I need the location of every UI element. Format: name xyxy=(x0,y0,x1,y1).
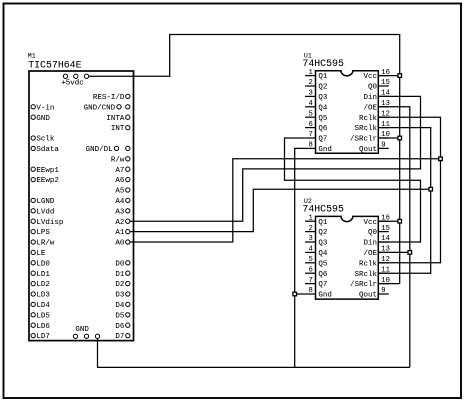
U2 part value 74HC595 xyxy=(302,204,344,215)
svg-text:LD7: LD7 xyxy=(36,333,50,341)
svg-text:/OE: /OE xyxy=(363,104,377,112)
svg-text:INT: INT xyxy=(111,125,125,133)
svg-text:Rclk: Rclk xyxy=(359,115,378,123)
U1 pin 16 Vcc xyxy=(363,69,389,81)
M1 pin INT xyxy=(111,125,130,133)
M1 GND pins xyxy=(73,326,99,338)
svg-text:D5: D5 xyxy=(115,312,125,320)
svg-text:INTA: INTA xyxy=(106,115,125,123)
wire +5vdc net: M1 top pin to U1/U2 Vcc and /SRclr rail xyxy=(89,35,400,284)
U1 part value 74HC595 xyxy=(302,58,344,69)
svg-text:LR/w: LR/w xyxy=(36,240,55,248)
M1 pin A5 xyxy=(115,188,130,196)
U2 pin 1 Q1 xyxy=(305,214,328,226)
svg-text:D0: D0 xyxy=(115,260,125,268)
svg-text:7: 7 xyxy=(308,131,312,139)
svg-text:74HC595: 74HC595 xyxy=(302,204,344,215)
M1 pin LD5 xyxy=(31,312,50,320)
U2 pin 3 Q3 xyxy=(305,235,328,247)
M1 pin LD0 xyxy=(31,260,50,268)
M1 part value TIC57H64E xyxy=(28,60,81,71)
svg-text:TIC57H64E: TIC57H64E xyxy=(28,60,81,71)
svg-text:LD6: LD6 xyxy=(36,323,50,331)
svg-text:R/w: R/w xyxy=(111,156,125,164)
svg-text:M1: M1 xyxy=(28,53,36,60)
M1 pin LD2 xyxy=(31,281,50,289)
U1 pin 15 Q0 xyxy=(368,79,390,91)
svg-text:3: 3 xyxy=(308,235,312,243)
U1 reference designator xyxy=(304,52,312,59)
wire A2 net: M1.A2 to U1.Din (pin14) xyxy=(130,96,421,221)
U2 pin 4 Q4 xyxy=(305,246,328,258)
svg-text:1: 1 xyxy=(308,69,312,77)
svg-text:A0: A0 xyxy=(115,240,125,248)
svg-text:4: 4 xyxy=(308,100,312,108)
svg-text:D1: D1 xyxy=(115,271,125,279)
M1 pin D5 xyxy=(115,312,130,320)
U1 pin 4 Q4 xyxy=(305,100,328,112)
svg-text:Q2: Q2 xyxy=(318,84,327,92)
M1 pin LD7 xyxy=(31,333,50,341)
svg-text:+5vdc: +5vdc xyxy=(61,80,84,88)
M1 pin A6 xyxy=(115,177,130,185)
svg-text:EEwp1: EEwp1 xyxy=(36,167,59,175)
U1 pin 5 Q5 xyxy=(305,110,328,122)
IC U2 74HC595 body xyxy=(316,216,379,299)
U1 pin 9 Qout xyxy=(359,142,389,154)
svg-text:A5: A5 xyxy=(115,188,125,196)
svg-text:8: 8 xyxy=(308,142,312,150)
svg-text:LD2: LD2 xyxy=(36,281,50,289)
svg-text:Q3: Q3 xyxy=(318,94,328,102)
svg-text:Sclk: Sclk xyxy=(36,136,55,144)
M1 pin LE xyxy=(31,250,46,258)
svg-text:Q4: Q4 xyxy=(318,104,328,112)
M1 pin LR/w xyxy=(31,240,55,248)
svg-text:6: 6 xyxy=(308,121,312,129)
wire /OE net: U1.13 and U2.13 to ground rail xyxy=(378,107,410,368)
svg-text:LD3: LD3 xyxy=(36,292,50,300)
svg-text:Q0: Q0 xyxy=(368,229,378,237)
M1 pin A4 xyxy=(115,198,130,206)
M1 pin R/w xyxy=(111,156,130,164)
U1 pin 12 Rclk xyxy=(359,110,390,122)
svg-text:D4: D4 xyxy=(115,302,125,310)
svg-text:Din: Din xyxy=(363,240,377,248)
svg-text:Q1: Q1 xyxy=(318,219,328,227)
svg-text:LE: LE xyxy=(36,250,46,258)
M1 pin EEwp1 xyxy=(31,167,59,175)
M1 pin EEwp2 xyxy=(31,177,59,185)
junction GND at U2 pin8 xyxy=(293,292,297,296)
M1 pin D1 xyxy=(115,271,130,279)
M1 pin RES-I/D xyxy=(93,94,130,102)
junction A0/Rclk xyxy=(439,157,443,161)
M1 pin Sdata xyxy=(31,146,59,154)
svg-text:Q5: Q5 xyxy=(318,115,328,123)
svg-text:/OE: /OE xyxy=(363,250,377,258)
M1 pin A0 xyxy=(115,240,130,248)
U2 pin 8 Gnd xyxy=(305,287,332,299)
svg-text:/SRclr: /SRclr xyxy=(350,136,377,144)
U2 pin 16 Vcc xyxy=(363,214,389,226)
U1 pin 7 Q7 xyxy=(305,131,327,143)
U2 pin 10 /SRclr xyxy=(350,277,390,289)
U1 pin 6 Q6 xyxy=(305,121,328,133)
M1 pin GND/DL xyxy=(86,146,130,154)
svg-text:15: 15 xyxy=(381,79,390,87)
svg-text:Q6: Q6 xyxy=(318,125,328,133)
M1 pin D3 xyxy=(115,292,130,300)
svg-text:SRclk: SRclk xyxy=(354,125,377,133)
IC U1 74HC595 body xyxy=(316,71,379,154)
svg-text:1: 1 xyxy=(308,214,312,222)
svg-text:D3: D3 xyxy=(115,292,125,300)
junction +5V at U2 pin16 xyxy=(398,219,402,223)
U1 pin 2 Q2 xyxy=(305,79,327,91)
U2 pin 7 Q7 xyxy=(305,277,327,289)
M1 pin A1 xyxy=(115,229,130,237)
U2 pin 11 SRclk xyxy=(354,266,389,278)
svg-text:LGND: LGND xyxy=(36,198,55,206)
M1 pin LVdd xyxy=(31,208,54,216)
M1 pin V-in xyxy=(31,104,54,112)
svg-text:A2: A2 xyxy=(115,219,124,227)
svg-text:Qout: Qout xyxy=(359,292,377,300)
svg-text:A6: A6 xyxy=(115,177,125,185)
svg-text:SRclk: SRclk xyxy=(354,271,377,279)
U2 pin 13 /OE xyxy=(363,246,389,258)
svg-text:5: 5 xyxy=(308,110,312,118)
M1 pin LD6 xyxy=(31,323,50,331)
U1 pin 11 SRclk xyxy=(354,121,389,133)
U2 pin 12 Rclk xyxy=(359,256,390,268)
M1 +5vdc supply pins xyxy=(61,74,88,87)
svg-text:GND/DL: GND/DL xyxy=(86,146,114,154)
U2 pin 14 Din xyxy=(363,235,389,247)
U2 pin 5 Q5 xyxy=(305,256,328,268)
svg-text:Q4: Q4 xyxy=(318,250,328,258)
M1 pin INTA xyxy=(106,115,130,123)
svg-text:A4: A4 xyxy=(115,198,125,206)
wire cascade net: U1.Q7 (pin7) to U2.Din (pin14) xyxy=(285,138,421,242)
IC M1 TIC57H64E body xyxy=(29,71,134,341)
M1 pin Sclk xyxy=(31,136,55,144)
M1 pin D0 xyxy=(115,260,130,268)
svg-text:LD4: LD4 xyxy=(36,302,50,310)
U1 pin 10 /SRclr xyxy=(350,131,390,143)
M1 pin LVdisp xyxy=(31,219,63,227)
svg-text:D2: D2 xyxy=(115,281,124,289)
M1 pin A7 xyxy=(115,167,130,175)
svg-text:LVdd: LVdd xyxy=(36,208,54,216)
svg-text:2: 2 xyxy=(308,225,312,233)
svg-text:A3: A3 xyxy=(115,208,125,216)
svg-text:LPS: LPS xyxy=(36,229,50,237)
svg-text:LD5: LD5 xyxy=(36,312,50,320)
svg-text:Q6: Q6 xyxy=(318,271,328,279)
svg-text:LD0: LD0 xyxy=(36,260,50,268)
M1 pin GND/CND xyxy=(84,104,130,112)
svg-text:74HC595: 74HC595 xyxy=(302,58,344,69)
svg-text:/SRclr: /SRclr xyxy=(350,281,377,289)
junction +5V at U1 pin16 xyxy=(398,74,402,78)
svg-text:GND/CND: GND/CND xyxy=(84,104,116,112)
wire GND net: M1 gnd pin, U1.8, U2.8 to bottom rail xyxy=(98,148,410,367)
M1 reference designator xyxy=(28,53,36,60)
M1 pin LPS xyxy=(31,229,50,237)
svg-text:Q7: Q7 xyxy=(318,281,327,289)
U2 pin 6 Q6 xyxy=(305,266,328,278)
svg-text:RES-I/D: RES-I/D xyxy=(93,94,125,102)
svg-text:4: 4 xyxy=(308,246,312,254)
wire A1 net: M1.A1 to SRclk of U1/U2 xyxy=(130,128,431,274)
M1 pin LD4 xyxy=(31,302,50,310)
svg-text:6: 6 xyxy=(308,266,312,274)
U1 pin 1 Q1 xyxy=(305,69,328,81)
U2 reference designator xyxy=(304,198,312,205)
svg-text:Gnd: Gnd xyxy=(318,146,332,154)
svg-text:D7: D7 xyxy=(115,333,124,341)
M1 pin GND xyxy=(31,115,50,123)
svg-text:GND: GND xyxy=(36,115,50,123)
svg-text:8: 8 xyxy=(308,287,312,295)
svg-text:9: 9 xyxy=(381,287,385,295)
svg-text:5: 5 xyxy=(308,256,312,264)
wire A0 net: M1.A0 to Rclk of U1/U2 xyxy=(130,117,441,263)
M1 pin LGND xyxy=(31,198,55,206)
svg-text:A1: A1 xyxy=(115,229,125,237)
M1 pin D4 xyxy=(115,302,130,310)
junction A1/SRclk xyxy=(429,187,433,191)
svg-text:Vcc: Vcc xyxy=(363,219,377,227)
svg-text:3: 3 xyxy=(308,90,312,98)
svg-text:9: 9 xyxy=(381,142,385,150)
svg-text:V-in: V-in xyxy=(36,104,54,112)
svg-text:Q7: Q7 xyxy=(318,136,327,144)
svg-text:Q5: Q5 xyxy=(318,260,328,268)
svg-text:15: 15 xyxy=(381,225,390,233)
U1 pin 13 /OE xyxy=(363,100,389,112)
M1 pin D7 xyxy=(115,333,130,341)
M1 pin D2 xyxy=(115,281,130,289)
M1 pin A3 xyxy=(115,208,130,216)
U1 pin 3 Q3 xyxy=(305,90,328,102)
U1 pin 8 Gnd xyxy=(305,142,332,154)
U2 pin 9 Qout xyxy=(359,287,389,299)
svg-text:Vcc: Vcc xyxy=(363,73,377,81)
svg-text:GND: GND xyxy=(75,326,89,334)
svg-text:EEwp2: EEwp2 xyxy=(36,177,59,185)
svg-text:7: 7 xyxy=(308,277,312,285)
svg-text:Sdata: Sdata xyxy=(36,146,59,154)
U2 pin 15 Q0 xyxy=(368,225,390,237)
svg-text:Q2: Q2 xyxy=(318,229,327,237)
svg-text:A7: A7 xyxy=(115,167,124,175)
M1 pin LD1 xyxy=(31,271,50,279)
svg-text:Q0: Q0 xyxy=(368,84,378,92)
junction /OE at U2 pin13 xyxy=(408,251,412,255)
svg-text:Q1: Q1 xyxy=(318,73,328,81)
svg-text:LD1: LD1 xyxy=(36,271,50,279)
U2 pin 2 Q2 xyxy=(305,225,327,237)
svg-text:Rclk: Rclk xyxy=(359,260,378,268)
svg-text:Din: Din xyxy=(363,94,377,102)
svg-text:2: 2 xyxy=(308,79,312,87)
junction +5V at U1 pin10 xyxy=(398,136,402,140)
M1 pin D6 xyxy=(115,323,130,331)
svg-text:Q3: Q3 xyxy=(318,240,328,248)
svg-text:Qout: Qout xyxy=(359,146,377,154)
svg-text:Gnd: Gnd xyxy=(318,292,332,300)
M1 pin A2 xyxy=(115,219,130,227)
M1 pin LD3 xyxy=(31,292,50,300)
U1 pin 14 Din xyxy=(363,90,389,102)
svg-text:LVdisp: LVdisp xyxy=(36,219,63,227)
svg-text:D6: D6 xyxy=(115,323,125,331)
